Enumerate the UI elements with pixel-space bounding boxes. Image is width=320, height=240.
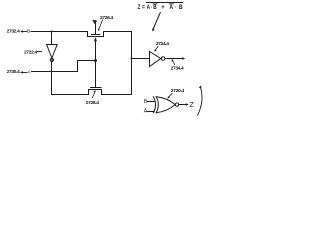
wire B horizontal [31,31,88,33]
svg-text:2734.4: 2734.4 [171,65,184,71]
wire A rise [77,61,79,72]
wire bulk of Q1 up from node [95,41,97,61]
XNOR U3 input stub B [148,101,155,103]
svg-text:B: B [27,29,30,35]
bulk arrowhead into Q1 channel [94,37,97,41]
XNOR output arrowhead [186,103,189,106]
leader line of 2726.4 [99,20,103,30]
leader line of 2720.4 [169,94,172,98]
XNOR U3 input stub A [147,111,154,113]
node Z output label [189,100,194,109]
transistor Q2 (2728.4) channel bar [89,89,102,91]
leader arrowhead of 2720.4 [167,96,170,98]
wire Q1 drain up [103,32,105,37]
transistor Q2 drain arm [101,90,103,95]
node A input label [27,69,31,75]
svg-text:Z: Z [189,100,194,109]
inverter U1 (2722.4) triangle [47,45,58,59]
label 2728.4 (transistor Q2 reference numeral) [86,100,99,106]
leader line of 2728.4 [92,92,95,98]
decorative arc bottom right [198,87,202,116]
node B input label [27,29,30,35]
wire inverter output down to rail [51,62,53,95]
wire A horizontal [32,71,78,73]
transistor Q2 source arm [88,90,90,95]
leader arrowhead of 2728.4 [93,90,95,92]
leader dash for 2722.4 [37,51,41,53]
wire A to gate node [78,60,96,62]
wire buffer output 2734.4 [165,58,183,60]
leader line of 2724.4 [155,46,158,50]
transistor Q2 gate bar [91,87,102,89]
wire inverter input drop [51,32,53,45]
leader dash to B [23,31,27,33]
label 2726.4 (transistor Q1 reference numeral) [100,15,113,21]
overbar over second A [169,3,173,5]
leader arrowhead of 2734.4 [172,59,174,62]
svg-text:2732.4: 2732.4 [7,29,20,35]
wire rail right section [102,94,132,96]
XNOR U3 output bubble [175,103,178,106]
transistor Q1 gate bar [92,34,100,36]
equation Z = A·B + A·B with overbars [138,4,183,11]
wire gate of Q2 down from node [95,61,97,88]
overbar over first B [153,3,157,5]
wire node N to buffer [132,58,150,60]
XNOR U3 outer back arc [153,97,155,113]
arc arrowhead [199,86,202,89]
label 2734.4 (output net reference numeral) [171,65,184,71]
transistor Q1 channel bar [88,36,104,38]
inverter U1 output bubble [51,59,54,62]
svg-text:2722.4: 2722.4 [24,50,37,56]
transistor Q1 (2726.4) gate terminal flag [92,20,97,25]
svg-text:A: A [147,4,151,11]
svg-text:A: A [169,4,173,11]
label 2724.4 (buffer reference numeral) [156,41,169,47]
label 2730.4 (input A reference numeral) [7,69,20,75]
svg-text:B: B [179,4,183,11]
label 2732.4 (input B reference numeral) [7,29,20,35]
svg-text:2728.4: 2728.4 [86,100,99,106]
junction dot node N at buffer input [131,58,133,60]
overbar over full expression [146,2,182,4]
XNOR U3 body [156,97,175,113]
svg-text:·: · [175,4,176,11]
svg-text:Z: Z [138,4,141,11]
leader arrowhead of 2724.4 [154,49,157,51]
leader line of 2734.4 [172,60,174,64]
XNOR gate U3 input label A [144,109,148,115]
XNOR gate U3 (2720.4) input label B [144,99,148,105]
wire bottom rail [52,94,89,96]
svg-text:A: A [27,69,31,75]
buffer U2 output bubble [161,57,165,61]
svg-text:2726.4: 2726.4 [100,15,113,21]
wire node N vertical [131,32,133,95]
junction dot node A/gates [94,59,97,62]
leader arrow from equation to node N wire [153,13,160,29]
XNOR U3 output wire [179,104,186,106]
junction dot on wire B [51,31,53,33]
transistor Q1 gate wire from flag [95,23,97,34]
wire B down to Q1 source [87,32,89,37]
leader arrowhead for 2732.4 [20,30,23,33]
svg-text:2730.4: 2730.4 [7,69,20,75]
XNOR U3 inner back arc [156,97,158,113]
leader dash to A [23,72,27,74]
output arrowhead 2734.4 [182,57,185,60]
label 2720.4 (XNOR gate reference numeral) [171,88,184,94]
label 2722.4 (inverter reference numeral) [24,50,37,56]
svg-text:·: · [151,4,152,11]
svg-text:+: + [161,4,165,11]
wire top drain to node N [104,31,132,33]
svg-text:B: B [153,4,157,11]
svg-text:2720.4: 2720.4 [171,88,184,94]
leader arrowhead for 2730.4 [20,71,23,74]
buffer U2 (2724.4) triangle [150,52,161,67]
svg-text:=: = [142,4,145,11]
leader arrowhead of 2726.4 [98,29,100,31]
